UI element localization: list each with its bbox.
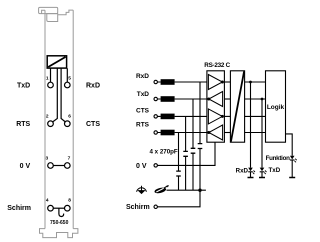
wire RxD to isolation (224, 81, 230, 83)
RxD tap wire down (199, 82, 201, 190)
capacitor on CTS tap (183, 151, 188, 156)
junction dot CTS buffer output (221, 115, 224, 118)
svg-text:RTS: RTS (136, 121, 150, 128)
svg-text:RxD: RxD (236, 168, 249, 175)
filter choke RTS (161, 130, 175, 136)
svg-text:RxD: RxD (86, 82, 100, 89)
0 V terminal (154, 164, 157, 167)
wire CTS isolation to Logik (245, 115, 266, 117)
display window box (47, 56, 66, 68)
svg-text:Funktion: Funktion (266, 155, 291, 162)
buffer triangle RxD (208, 75, 222, 90)
RxD wire (157, 81, 207, 83)
module body right edge (72, 10, 74, 229)
svg-text:0 V: 0 V (136, 163, 147, 170)
svg-text:RS-232 C: RS-232 C (204, 62, 230, 69)
terminal 3 (48, 163, 54, 169)
junction dot TxD LED tap (261, 98, 264, 101)
module bottom foot profile (40, 229, 78, 238)
terminal 1 (48, 82, 54, 88)
terminal 5 (65, 82, 71, 88)
isolation diagonal (231, 71, 244, 141)
capacitor on TxD tap (191, 148, 196, 153)
svg-text:CTS: CTS (136, 108, 150, 115)
functional earth symbol (137, 186, 147, 194)
stem to terminal 5 (66, 68, 68, 82)
svg-text:4 x 270pF: 4 x 270pF (150, 149, 178, 156)
svg-text:1: 1 (46, 75, 49, 81)
wire TxD to isolation (224, 98, 230, 100)
module top right step profile (58, 10, 73, 15)
terminal 6 (65, 121, 71, 127)
buffer triangle CTS (208, 109, 222, 124)
RTS wire (157, 132, 207, 134)
terminal 7 (65, 163, 71, 169)
filter choke TxD (161, 96, 175, 102)
junction dot RxD buffer output (221, 81, 224, 84)
pass-through line right to terminal 6 (61, 68, 65, 122)
wire TxD isolation to Logik (245, 98, 266, 100)
svg-text:TxD: TxD (137, 91, 150, 98)
galvanic isolation block (230, 71, 244, 142)
CTS tap wire down (185, 116, 187, 190)
LED Funktion (289, 156, 297, 178)
shield rail (167, 189, 206, 191)
stem to terminal 1 (50, 68, 52, 82)
terminal 8 (65, 205, 71, 211)
svg-text:5: 5 (68, 75, 71, 81)
pass-through line left to terminal 2 (53, 68, 58, 122)
capacitor on RxD tap (198, 144, 203, 149)
svg-text:RxD: RxD (136, 73, 149, 80)
TxD terminal (154, 97, 157, 100)
TxD tap wire down (192, 99, 194, 190)
module top latch notch (42, 10, 45, 14)
junction dot TxD buffer output (207, 98, 210, 101)
terminal 2 (48, 121, 54, 127)
LED TxD (259, 168, 267, 178)
Logik block (266, 71, 286, 142)
CTS wire (157, 115, 207, 117)
svg-text:7: 7 (68, 156, 71, 162)
svg-text:RTS: RTS (16, 121, 30, 128)
0 V wire to RS-232 block (157, 142, 215, 165)
svg-text:CTS: CTS (86, 121, 100, 128)
svg-text:Schirm: Schirm (7, 205, 31, 212)
RS-232 C driver block (207, 71, 225, 142)
terminal 4 (48, 205, 54, 211)
shield contact hook on bridge 4-8 (59, 208, 64, 216)
module top latch bar (39, 7, 58, 13)
buffer triangle TxD (209, 92, 223, 107)
svg-text:TxD: TxD (269, 167, 281, 174)
svg-text:3: 3 (45, 156, 48, 162)
svg-text:750-650: 750-650 (50, 220, 69, 226)
Funktion LED feed wire (286, 134, 293, 156)
bridge wire terminals 3-7 (53, 165, 64, 167)
CTS terminal (154, 115, 157, 118)
RxD LED feed wire (250, 82, 252, 168)
svg-text:0 V: 0 V (20, 163, 31, 170)
buffer triangle RTS (209, 125, 223, 140)
junction dot RTS buffer output (207, 131, 210, 134)
shield clamp symbol (154, 185, 169, 194)
RxD terminal (154, 80, 157, 83)
svg-text:6: 6 (68, 114, 71, 120)
wire RxD isolation to Logik (245, 81, 266, 83)
TxD wire (157, 98, 207, 100)
svg-text:4: 4 (46, 198, 49, 204)
display window diagonal (48, 57, 65, 67)
svg-text:2: 2 (46, 114, 49, 120)
TxD LED feed wire (261, 99, 263, 168)
RTS tap wire down (178, 133, 180, 191)
LED RxD (248, 168, 256, 178)
module body left edge (44, 10, 46, 228)
capacitor on RTS tap (176, 171, 181, 176)
svg-text:8: 8 (68, 198, 71, 204)
RTS terminal (154, 131, 157, 134)
wire CTS to isolation (224, 115, 230, 117)
wire RTS isolation to Logik (245, 132, 266, 134)
Schirm terminal (154, 205, 157, 208)
junction dot RxD LED tap (249, 81, 252, 84)
junction dot shield rail (198, 189, 201, 192)
module top lower latch block (47, 14, 58, 22)
filter choke CTS (161, 114, 175, 120)
filter choke RxD (161, 79, 175, 85)
svg-text:Logik: Logik (267, 104, 285, 111)
svg-text:Schirm: Schirm (126, 204, 150, 211)
wire RTS to isolation (224, 132, 230, 134)
bridge wire terminals 4-8 (53, 207, 64, 209)
svg-text:TxD: TxD (17, 82, 30, 89)
Schirm wire riser (157, 190, 200, 207)
